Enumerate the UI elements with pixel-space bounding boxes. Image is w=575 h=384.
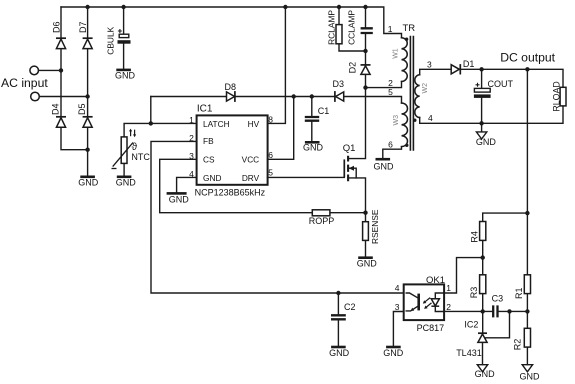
svg-text:CS: CS (203, 155, 215, 165)
svg-text:W2: W2 (422, 83, 429, 94)
svg-text:C2: C2 (344, 302, 356, 312)
svg-text:ROPP: ROPP (309, 216, 335, 226)
svg-text:GND: GND (78, 178, 99, 188)
svg-text:GND: GND (520, 372, 541, 382)
svg-text:R1: R1 (514, 287, 524, 299)
svg-text:D7: D7 (78, 21, 88, 33)
svg-text:C1: C1 (318, 106, 330, 116)
svg-text:HV: HV (248, 119, 260, 129)
svg-text:R4: R4 (469, 231, 479, 243)
svg-text:4: 4 (189, 169, 194, 179)
svg-text:2: 2 (446, 302, 451, 312)
svg-text:1: 1 (189, 115, 194, 125)
svg-text:IC1: IC1 (197, 103, 213, 114)
svg-text:4: 4 (428, 113, 433, 123)
svg-text:6: 6 (388, 139, 393, 149)
svg-text:5: 5 (268, 168, 273, 178)
svg-text:D1: D1 (463, 59, 475, 69)
svg-text:D4: D4 (51, 103, 61, 115)
svg-text:2: 2 (189, 133, 194, 143)
svg-text:D6: D6 (51, 21, 61, 33)
svg-text:FB: FB (203, 136, 214, 146)
svg-text:DC output: DC output (500, 50, 555, 64)
svg-text:D3: D3 (333, 79, 345, 89)
svg-text:PC817: PC817 (417, 323, 445, 333)
svg-text:DRV: DRV (242, 173, 260, 183)
svg-text:C3: C3 (492, 293, 504, 303)
svg-text:GND: GND (475, 369, 496, 379)
svg-text:4: 4 (395, 283, 400, 293)
svg-text:3: 3 (427, 60, 432, 70)
svg-text:IC2: IC2 (464, 319, 478, 329)
svg-text:GND: GND (383, 348, 404, 358)
svg-text:RCLAMP: RCLAMP (327, 10, 337, 45)
svg-text:W1: W1 (393, 48, 400, 59)
svg-text:LATCH: LATCH (203, 119, 230, 129)
svg-text:AC input: AC input (1, 76, 48, 90)
svg-text:6: 6 (268, 150, 273, 160)
svg-text:RSENSE: RSENSE (370, 209, 380, 244)
svg-text:GND: GND (329, 348, 350, 358)
svg-text:GND: GND (374, 162, 395, 172)
svg-text:GND: GND (303, 143, 324, 153)
svg-text:CBULK: CBULK (106, 26, 116, 54)
svg-text:GND: GND (116, 178, 137, 188)
svg-text:1: 1 (446, 283, 451, 293)
svg-text:D2: D2 (347, 62, 357, 74)
svg-text:8: 8 (268, 115, 273, 125)
svg-text:GND: GND (169, 195, 190, 205)
svg-text:NCP1238B65kHz: NCP1238B65kHz (195, 187, 266, 197)
svg-text:D8: D8 (225, 82, 237, 92)
svg-text:RLOAD: RLOAD (551, 81, 561, 111)
svg-text:TL431: TL431 (456, 348, 482, 358)
svg-text:TR: TR (403, 23, 416, 34)
svg-text:GND: GND (115, 70, 136, 80)
svg-text:3: 3 (395, 302, 400, 312)
svg-text:3: 3 (189, 151, 194, 161)
svg-text:GND: GND (203, 173, 221, 183)
svg-text:COUT: COUT (488, 79, 514, 89)
svg-text:W3: W3 (393, 115, 400, 126)
svg-text:R3: R3 (469, 287, 479, 299)
svg-text:5: 5 (388, 87, 393, 97)
svg-text:R2: R2 (512, 339, 522, 351)
svg-text:OK1: OK1 (426, 275, 445, 286)
svg-text:CCLAMP: CCLAMP (346, 10, 356, 45)
svg-text:GND: GND (357, 259, 378, 269)
svg-text:VCC: VCC (242, 155, 260, 165)
svg-text:Q1: Q1 (343, 143, 356, 154)
svg-text:1: 1 (388, 24, 393, 34)
svg-text:D5: D5 (77, 103, 87, 115)
svg-text:NTC: NTC (131, 152, 150, 162)
svg-text:GND: GND (476, 137, 497, 147)
